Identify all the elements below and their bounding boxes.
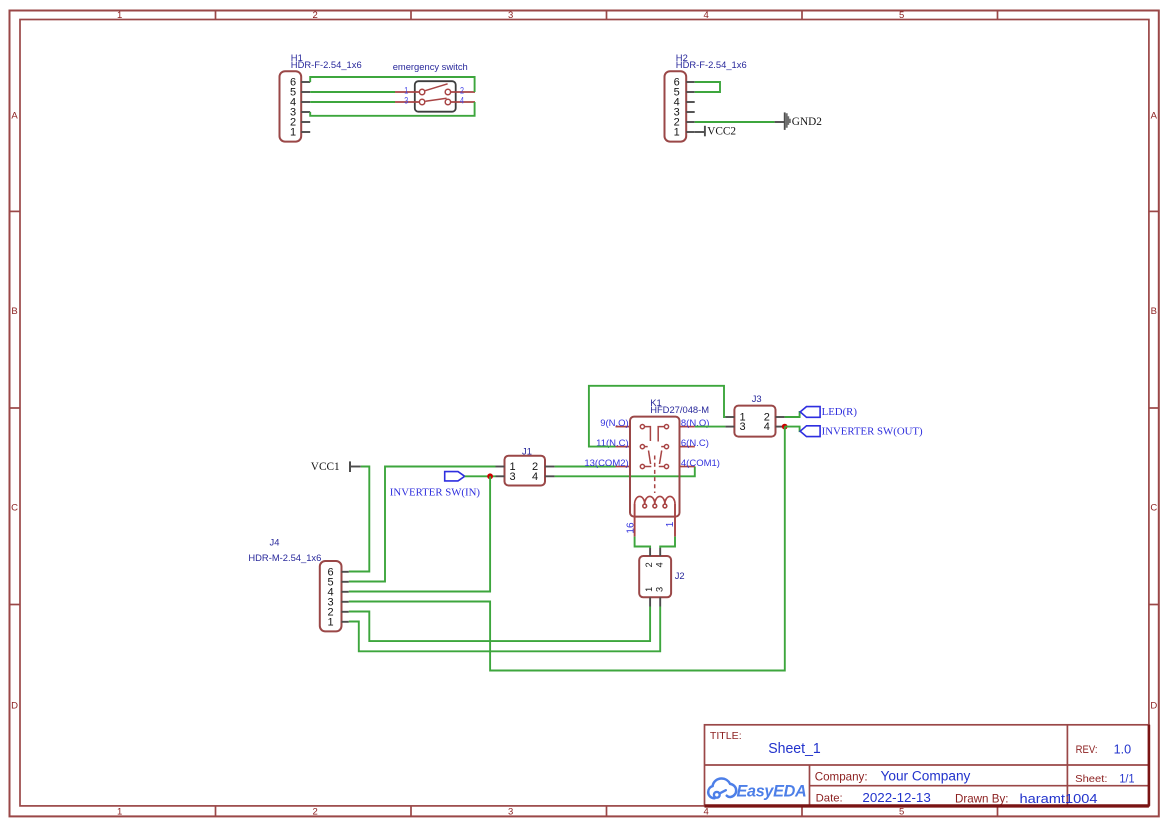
svg-text:9(N.O): 9(N.O) [600,418,629,429]
svg-text:1: 1 [665,521,676,527]
svg-text:REV:: REV: [1076,744,1098,756]
relay K1 HFD27/048-M body [630,417,680,517]
net flag INVERTER SW(IN) [445,472,465,481]
wire J4.1 to J2.3 [349,607,660,652]
J2 pin numbers [644,562,664,592]
svg-text:6(N.C): 6(N.C) [681,438,709,449]
svg-text:4: 4 [704,807,709,818]
title block fields [710,731,1135,806]
svg-text:Sheet_1: Sheet_1 [768,741,821,757]
svg-text:HFD27/048-M: HFD27/048-M [650,404,709,415]
EasyEDA logo [708,779,806,801]
junction at J1.3 [487,473,493,479]
svg-text:5: 5 [899,10,904,21]
svg-text:B: B [1151,306,1157,317]
H1 reference labels [291,52,362,70]
H2 reference labels [676,52,747,70]
connector J2 [639,556,671,597]
K1 contacts [640,425,668,494]
svg-text:D: D [11,700,18,711]
svg-text:4: 4 [654,562,664,567]
svg-text:5: 5 [899,807,904,818]
K1 coil pin numbers 16 and 1 [626,521,676,533]
svg-text:3: 3 [509,471,515,483]
svg-text:3: 3 [654,587,664,592]
wire H1.5 to switch pin 1 [310,91,395,93]
svg-text:LED(R): LED(R) [822,406,858,418]
K1 pins [616,427,695,467]
connector J4 HDR-M-2.54_1x6 [320,561,342,631]
J4 reference labels [248,537,321,564]
H1 pins [301,82,310,132]
svg-text:HDR-M-2.54_1x6: HDR-M-2.54_1x6 [248,552,321,563]
J4 pins [342,572,349,622]
wire J4.3 to junction at J3.4 [349,427,785,671]
K1 reference labels [650,397,709,415]
connector H1 HDR-F-2.54_1x6 [280,71,302,141]
svg-text:1/1: 1/1 [1119,771,1134,785]
svg-text:GND2: GND2 [792,116,822,128]
emergency switch [395,81,475,112]
svg-text:haramt1004: haramt1004 [1020,791,1098,806]
svg-text:B: B [11,306,17,317]
power port VCC1 [350,461,361,472]
svg-text:2: 2 [313,807,318,818]
svg-text:4: 4 [704,10,709,21]
svg-text:VCC1: VCC1 [311,461,340,473]
svg-text:1: 1 [644,587,654,592]
wire INVERTER SW(IN) to J1.3 [465,475,496,477]
J1 pin numbers [509,461,538,483]
net flag LED(R) [800,406,857,418]
connector J3 [734,406,775,437]
svg-text:TITLE:: TITLE: [710,731,742,742]
svg-text:Drawn By:: Drawn By: [955,792,1009,806]
svg-text:J2: J2 [675,570,685,581]
K1 pin name labels [584,418,720,469]
svg-text:2: 2 [313,10,318,21]
svg-text:J1: J1 [522,446,532,457]
wire K1.1 to J2.4 [660,537,675,548]
wire H1.3 to switch pin 4 [310,102,474,116]
J2 pins [650,548,660,607]
svg-text:16: 16 [626,522,637,534]
wire J3.2 to LED(R) flag [785,412,801,417]
wire K1.8 to J3.3 [695,426,726,428]
svg-text:4: 4 [532,471,538,483]
wire J4.2 to J2.1 [349,607,650,642]
H2 pins [686,82,695,132]
svg-text:3: 3 [508,807,513,818]
wire K1.16 to J2.2 [635,537,651,548]
svg-text:1: 1 [117,807,122,818]
svg-text:13(COM2): 13(COM2) [584,458,628,469]
svg-text:A: A [1151,111,1158,122]
svg-text:3: 3 [740,421,746,433]
svg-text:Date:: Date: [816,793,843,805]
svg-text:1: 1 [117,10,122,21]
ground GND2 [775,112,791,129]
svg-text:2022-12-13: 2022-12-13 [862,790,930,805]
title block [705,725,1149,806]
H2 pin numbers 6..1 [674,77,680,139]
svg-text:3: 3 [508,10,513,21]
J3 pin numbers [740,412,770,434]
net flag INVERTER SW(OUT) [800,426,923,438]
svg-text:A: A [11,111,18,122]
wire J3.4 to INVERTER SW(OUT) flag [785,427,801,432]
svg-text:C: C [11,502,18,513]
wire K1.11 to J3.1 [589,386,726,447]
wire VCC1 to J4.6 [349,467,370,572]
svg-text:C: C [1150,502,1157,513]
J3 pins [725,417,784,427]
svg-text:VCC2: VCC2 [707,126,736,138]
svg-text:J3: J3 [752,393,762,404]
svg-text:EasyEDA: EasyEDA [737,783,807,801]
svg-text:INVERTER SW(OUT): INVERTER SW(OUT) [822,426,923,438]
connector H2 HDR-F-2.54_1x6 [665,71,687,141]
svg-text:INVERTER SW(IN): INVERTER SW(IN) [390,487,481,499]
wire H1.6 to switch pin 2 [310,77,474,92]
svg-text:Your Company: Your Company [881,769,971,784]
wire J4.4 to junction at J1.3 [349,476,490,591]
wire J1.4 to K1.4 [555,467,695,477]
emergency switch pin numbers [404,85,464,106]
svg-text:1: 1 [674,127,680,139]
svg-text:1: 1 [327,616,333,628]
svg-text:4: 4 [764,421,770,433]
H1 pin numbers 6..1 [290,77,296,139]
svg-text:Sheet:: Sheet: [1075,773,1107,785]
svg-text:2: 2 [644,562,654,567]
svg-text:HDR-F-2.54_1x6: HDR-F-2.54_1x6 [291,59,362,70]
svg-text:4(COM1): 4(COM1) [681,458,720,469]
connector J1 [505,456,546,486]
svg-text:D: D [1150,700,1157,711]
K1 coil [635,496,675,536]
svg-text:J4: J4 [270,537,280,548]
svg-text:Company:: Company: [815,769,868,783]
wire H2.2 to GND2 [695,121,775,123]
J4 pin numbers 6..1 [327,566,333,628]
svg-text:1: 1 [290,127,296,139]
svg-text:4: 4 [460,96,464,107]
svg-text:HDR-F-2.54_1x6: HDR-F-2.54_1x6 [676,59,747,70]
svg-text:1.0: 1.0 [1114,742,1132,756]
wire J1.2 to K1.13 [555,466,616,468]
svg-text:3: 3 [404,96,408,107]
wire J4.5 to J1.1 [349,467,496,582]
junction at J3.4 [782,424,788,430]
power port VCC2 [695,126,705,137]
wire H2.6 to H2.5 [695,82,720,92]
J1 pins [496,467,555,477]
svg-text:emergency switch: emergency switch [393,61,468,72]
wire H1.4 to switch pin 3 [310,101,395,103]
